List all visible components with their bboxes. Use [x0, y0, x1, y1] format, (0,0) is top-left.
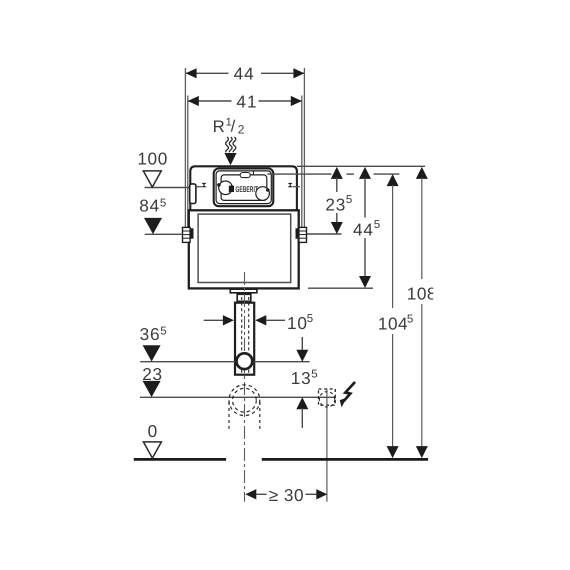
- label R 1/2 water supply: [213, 116, 245, 136]
- dim 23.5 label: [325, 194, 352, 214]
- dim 13.5 lower arrow: [296, 397, 308, 428]
- svg-text:23: 23: [142, 364, 163, 384]
- level line 23: [140, 396, 336, 398]
- dim 44 label: [234, 64, 255, 84]
- electrical connection drop line: [326, 389, 328, 502]
- drain dashed side line right: [259, 402, 261, 429]
- svg-text:36: 36: [140, 324, 161, 344]
- electrical connection dashed box: [319, 389, 336, 405]
- flush pipe neck: [237, 294, 251, 301]
- actuator level reference line: [267, 173, 399, 175]
- dim >=30: [245, 489, 327, 499]
- supply connection box: [190, 184, 196, 204]
- svg-text:13: 13: [291, 368, 312, 388]
- dim 44 line: [186, 68, 305, 78]
- right frame foot bracket: [296, 227, 307, 242]
- electrical connection dashed circle: [319, 392, 334, 407]
- dim 41 label: [236, 92, 257, 112]
- water supply squiggle arrow: [224, 137, 236, 165]
- dim 10.5: [204, 315, 285, 325]
- left frame foot bracket: [183, 227, 194, 242]
- svg-text:0: 0: [148, 421, 158, 441]
- dim 104.5 label: [378, 313, 413, 333]
- left fixation bowtie: [202, 183, 207, 187]
- right fixation bowtie: [288, 183, 293, 187]
- outlet ring: [237, 353, 253, 369]
- cistern bottom reference line: [308, 287, 373, 289]
- level marker 23 filled triangle: [143, 381, 161, 397]
- svg-text:/: /: [231, 118, 236, 136]
- svg-text:≥ 30: ≥ 30: [269, 485, 304, 505]
- access panel plate: [221, 175, 267, 201]
- label 84.5: [139, 196, 166, 216]
- dim 108 label clipped: [407, 280, 449, 306]
- rail left inner line: [187, 96, 189, 228]
- drain dashed side line left: [228, 402, 230, 429]
- svg-text:84: 84: [139, 196, 160, 216]
- overflow pill: [240, 173, 250, 178]
- dim 13.5 label: [291, 368, 318, 388]
- label 100: [137, 149, 167, 169]
- label 36.5: [140, 324, 167, 344]
- dim 41 line: [188, 96, 302, 106]
- overflow tick: [252, 171, 254, 175]
- lightning bolt symbol: [340, 382, 355, 407]
- level marker 36.5 filled triangle: [143, 345, 161, 361]
- geberit logo square: [229, 186, 234, 192]
- svg-text:41: 41: [236, 92, 257, 112]
- rail right outer line: [303, 68, 305, 227]
- top reference line extension: [297, 165, 425, 167]
- level marker 0 open triangle: [143, 442, 161, 458]
- flush bend pipe: [235, 303, 254, 375]
- svg-text:2: 2: [238, 122, 245, 136]
- svg-text:23: 23: [325, 194, 346, 214]
- cistern upper section: [190, 166, 297, 210]
- svg-text:100: 100: [137, 149, 167, 169]
- svg-text:44: 44: [353, 219, 374, 239]
- dim 108 vertical line: [416, 167, 428, 458]
- access panel outer frame: [214, 169, 274, 207]
- svg-text:5: 5: [346, 194, 352, 206]
- label 0: [148, 421, 158, 441]
- svg-text:10: 10: [287, 313, 308, 333]
- svg-text:5: 5: [160, 197, 166, 209]
- svg-text:5: 5: [160, 326, 166, 338]
- svg-text:44: 44: [234, 64, 255, 84]
- panel right screw dot: [266, 188, 270, 192]
- svg-text:5: 5: [374, 219, 380, 231]
- access panel second frame: [216, 171, 271, 204]
- right fixation stub line: [293, 186, 300, 188]
- drain dashed circle inner: [233, 388, 257, 412]
- cistern lower body inner wall: [198, 214, 291, 282]
- svg-text:R: R: [213, 117, 225, 136]
- level line 84.5: [145, 233, 182, 235]
- level line 100: [145, 187, 190, 189]
- dim >=30 label: [269, 485, 304, 505]
- level marker 100 open triangle: [143, 171, 161, 187]
- rail left outer line: [184, 68, 186, 227]
- dim 44.5 vertical: [359, 167, 371, 288]
- svg-text:GEBERIT: GEBERIT: [235, 184, 258, 194]
- right bracket reference line: [307, 233, 342, 235]
- svg-text:5: 5: [407, 313, 413, 325]
- level line 36.5: [140, 361, 309, 363]
- cistern lower body outer: [189, 210, 299, 288]
- rail right inner line: [301, 96, 303, 228]
- svg-text:108: 108: [407, 284, 437, 304]
- dim 23.5 vertical: [331, 167, 343, 234]
- centerline vertical: [244, 272, 246, 502]
- svg-text:5: 5: [307, 313, 313, 325]
- dim 13.5 upper arrow: [296, 337, 308, 362]
- level line 0 floor: [134, 458, 428, 461]
- panel left screw dot: [217, 183, 221, 187]
- drain dashed circle outer: [229, 385, 260, 416]
- geberit logo text: [235, 184, 258, 194]
- panel left circle: [219, 181, 233, 195]
- left fixation stub line: [197, 186, 202, 188]
- flush pipe flange: [230, 289, 257, 293]
- panel right circle: [256, 187, 270, 201]
- level marker 84.5 filled triangle: [144, 218, 162, 234]
- svg-text:104: 104: [378, 314, 408, 334]
- dim 44.5 label: [353, 219, 380, 239]
- dim 104.5 vertical line: [387, 174, 399, 458]
- label 23: [142, 364, 163, 384]
- pipe inner dashed lines: [242, 297, 249, 374]
- svg-text:5: 5: [311, 368, 317, 380]
- dim 10.5 label: [287, 313, 313, 333]
